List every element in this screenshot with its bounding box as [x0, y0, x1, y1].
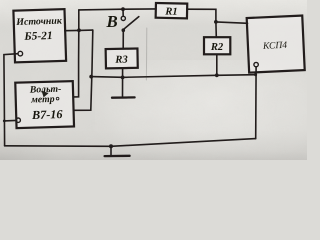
- small circle after метр: [56, 97, 59, 100]
- wire vertical A down to voltmeter upper tap: [73, 10, 78, 97]
- node bottom ground junction: [109, 144, 113, 148]
- box voltmeter V7-16: [15, 81, 74, 128]
- node R1/R2/KSP4 junction: [214, 20, 218, 24]
- wire junction to KSP4: [216, 22, 248, 23]
- svg-text:В7-16: В7-16: [31, 107, 64, 122]
- ground lower: [110, 146, 112, 154]
- wire KSP4 terminal down: [255, 67, 257, 139]
- ground upper: [112, 96, 135, 99]
- bottom bus wire: [5, 139, 256, 147]
- wire switch stub: [122, 9, 124, 16]
- source output terminal: [18, 51, 23, 56]
- resistor R1: [156, 3, 188, 18]
- wire vertical B down to voltmeter lower tap: [73, 30, 92, 110]
- svg-text:метр: метр: [30, 94, 55, 106]
- middle bus wire: [91, 75, 256, 78]
- wire R3 to ground bus: [122, 68, 124, 97]
- wire top bus to switch and R1: [79, 9, 156, 10]
- box source B5-21: [13, 9, 66, 62]
- box KSP4 recorder: [247, 16, 305, 73]
- wire source terminal to left rail: [4, 54, 18, 146]
- wire to voltmeter terminal: [4, 119, 16, 122]
- paper background: [0, 0, 307, 160]
- node left rail / voltmeter branch: [3, 120, 6, 123]
- svg-text:Б5-21: Б5-21: [23, 30, 52, 43]
- node bus right T: [254, 73, 257, 76]
- paper crease faint: [145, 28, 147, 80]
- resistor R2: [204, 37, 230, 54]
- node R2 bus junction: [215, 73, 219, 77]
- wire R2 down to bus: [216, 54, 218, 75]
- ink blot arrow in voltmeter box: [42, 91, 49, 98]
- voltmeter left terminal: [16, 118, 20, 122]
- node bus left T: [89, 75, 93, 79]
- switch B lower contact: [122, 28, 126, 32]
- svg-text:КСП4: КСП4: [262, 40, 288, 52]
- node A junction: [77, 28, 81, 32]
- switch B upper contact: [121, 16, 125, 20]
- wire R1 to corner and down: [187, 9, 216, 22]
- svg-text:В: В: [106, 12, 118, 31]
- resistor R3: [106, 49, 138, 69]
- node R3 bus junction: [121, 76, 125, 80]
- node switch top: [121, 7, 125, 11]
- svg-text:Источник: Источник: [15, 16, 63, 28]
- svg-text:R1: R1: [164, 6, 178, 17]
- wire source right stub: [65, 29, 93, 32]
- switch B blade: [124, 17, 139, 30]
- wire junction down to R2: [215, 22, 217, 37]
- wire switch to R3: [122, 30, 124, 49]
- svg-text:R2: R2: [210, 42, 224, 53]
- svg-text:R3: R3: [114, 54, 128, 65]
- KSP4 lower terminal: [254, 62, 258, 66]
